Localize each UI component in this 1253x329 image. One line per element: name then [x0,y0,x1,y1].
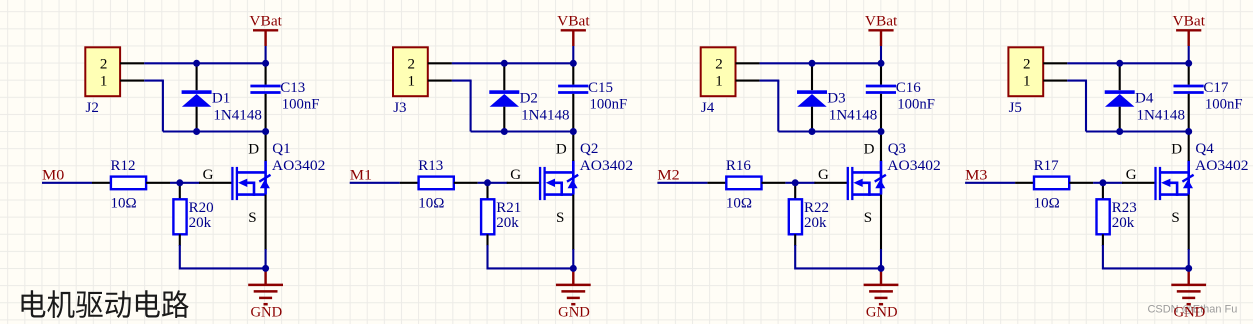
wire top rail (VBat net) [760,62,882,64]
wire from pin 1 down to bottom rail [144,80,164,82]
diode D1 1N4148 [182,63,262,131]
svg-text:D: D [1171,142,1182,158]
diode D2 1N4148 [489,63,569,131]
wire bottom rail (motor net) [1086,130,1190,132]
svg-text:VBat: VBat [249,13,282,29]
junction gate node [792,179,799,186]
transistor Q4 AO3402 N-MOSFET [1122,132,1248,251]
wire from VBat to top rail [265,46,267,63]
wire from VBat to top rail [880,46,882,63]
svg-text:10Ω: 10Ω [111,195,137,211]
svg-text:S: S [864,210,872,226]
svg-text:G: G [818,167,829,183]
svg-text:20k: 20k [189,215,212,231]
wire gate node to gate pin [488,182,508,184]
svg-text:R13: R13 [418,158,443,174]
pin 1 of J5 [1043,80,1067,82]
connector J3 [393,47,428,116]
svg-text:Q4: Q4 [1195,141,1214,157]
resistor R23 20k [1097,183,1137,246]
junction top rail / diode [809,60,816,67]
svg-text:2: 2 [715,56,723,72]
junction top rail / capacitor [878,60,885,67]
resistor R21 20k [481,183,521,246]
svg-text:GND: GND [866,304,898,320]
wire top rail (VBat net) [144,62,266,64]
power port VBat (J2 cell) [249,13,282,46]
power port VBat (J3 cell) [557,13,590,46]
junction bottom rail / drain [262,128,269,135]
junction top rail / capacitor [1185,60,1192,67]
wire bottom rail (motor net) [778,130,882,132]
svg-text:D3: D3 [827,91,845,107]
junction top rail / capacitor [570,60,577,67]
junction ground node [570,265,577,272]
svg-text:1: 1 [100,74,108,90]
capacitor C17 100nF [1174,63,1243,131]
svg-text:J4: J4 [701,100,715,116]
wire net M2 [657,182,707,184]
power port VBat (J4 cell) [865,13,898,46]
ground symbol GND [248,268,283,320]
svg-text:S: S [556,210,564,226]
junction bottom rail / drain [570,128,577,135]
junction ground node [878,265,885,272]
wire bottom rail (motor net) [163,130,267,132]
wire net M1 [350,182,400,184]
svg-text:GND: GND [558,304,590,320]
svg-text:C16: C16 [896,80,922,96]
wire source to ground node [1188,249,1190,268]
svg-text:C13: C13 [280,80,305,96]
junction top rail / diode [1116,60,1123,67]
transistor Q2 AO3402 N-MOSFET [507,132,633,251]
wire pulldown to ground node [179,245,181,270]
wire net M3 [965,182,1015,184]
wire from pin 1 down to bottom rail [1067,80,1087,82]
svg-text:20k: 20k [1112,215,1135,231]
svg-text:GND: GND [250,304,282,320]
wire gate node to gate pin [795,182,815,184]
pin 1 of J2 [120,80,144,82]
junction gate node [176,179,183,186]
svg-text:1N4148: 1N4148 [1137,107,1186,123]
junction ground node [1185,265,1192,272]
svg-text:AO3402: AO3402 [272,158,326,174]
svg-text:G: G [510,167,521,183]
ground symbol GND [864,268,899,320]
resistor R12 10 ohm [92,158,170,212]
junction top rail / diode [501,60,508,67]
svg-text:C17: C17 [1203,80,1229,96]
svg-text:R21: R21 [496,200,521,216]
svg-text:100nF: 100nF [1205,96,1243,112]
junction top rail / diode [193,60,200,67]
svg-text:J2: J2 [86,100,99,116]
svg-text:1: 1 [408,74,416,90]
diode D4 1N4148 [1105,63,1185,131]
svg-text:1N4148: 1N4148 [213,107,262,123]
svg-text:10Ω: 10Ω [1034,195,1060,211]
svg-text:D: D [248,142,259,158]
svg-text:Q2: Q2 [580,141,598,157]
svg-text:D: D [556,142,567,158]
resistor R22 20k [789,183,829,246]
ground symbol GND [556,268,591,320]
transistor Q3 AO3402 N-MOSFET [814,132,940,251]
svg-text:G: G [1126,167,1137,183]
title 电机驱动电路 [22,290,189,318]
svg-text:20k: 20k [496,215,519,231]
junction bottom rail / diode [1116,128,1123,135]
svg-text:C15: C15 [588,80,613,96]
wire pulldown to ground node [486,245,488,270]
svg-text:S: S [1171,210,1179,226]
pin 2 of J4 [736,62,760,64]
pin 1 of J4 [736,80,760,82]
svg-text:D2: D2 [520,91,538,107]
resistor R17 10 ohm [1015,158,1093,212]
svg-text:D1: D1 [212,91,230,107]
svg-text:GND: GND [1174,304,1206,320]
svg-text:Q1: Q1 [272,141,290,157]
svg-text:R22: R22 [804,200,829,216]
wire to gate node [170,182,181,184]
junction gate node [1099,179,1106,186]
wire from pin 1 down to bottom rail [452,80,472,82]
svg-text:G: G [203,167,214,183]
capacitor C13 100nF [250,63,319,131]
svg-text:J5: J5 [1009,100,1022,116]
diode D3 1N4148 [797,63,877,131]
wire pulldown to ground node [794,245,796,270]
wire top rail (VBat net) [452,62,574,64]
svg-text:R20: R20 [189,200,214,216]
svg-text:AO3402: AO3402 [580,158,634,174]
svg-text:Q3: Q3 [888,141,906,157]
svg-text:1: 1 [715,74,723,90]
svg-text:R17: R17 [1034,158,1060,174]
svg-text:R16: R16 [726,158,752,174]
wire to gate node [1093,182,1104,184]
svg-text:VBat: VBat [557,13,590,29]
svg-text:100nF: 100nF [590,96,628,112]
pin 1 of J3 [428,80,452,82]
wire to gate node [478,182,489,184]
junction bottom rail / diode [501,128,508,135]
pin 2 of J2 [120,62,144,64]
resistor R13 10 ohm [400,158,478,212]
svg-text:M0: M0 [42,168,64,184]
capacitor C16 100nF [866,63,935,131]
svg-text:1N4148: 1N4148 [829,107,878,123]
wire to gate node [785,182,796,184]
resistor R16 10 ohm [707,158,785,212]
wire source to ground node [572,249,574,268]
junction bottom rail / drain [878,128,885,135]
junction bottom rail / diode [193,128,200,135]
svg-text:M1: M1 [350,168,372,184]
svg-text:AO3402: AO3402 [1195,158,1249,174]
wire gate node to gate pin [1103,182,1123,184]
resistor R20 20k [173,183,213,246]
wire gate node to gate pin [180,182,200,184]
svg-text:100nF: 100nF [282,96,320,112]
wire from pin 1 down to bottom rail [760,80,780,82]
svg-text:10Ω: 10Ω [726,195,752,211]
svg-text:10Ω: 10Ω [418,195,444,211]
capacitor C15 100nF [558,63,627,131]
svg-text:VBat: VBat [865,13,898,29]
junction bottom rail / diode [809,128,816,135]
svg-text:M3: M3 [965,168,987,184]
svg-text:1N4148: 1N4148 [521,107,570,123]
wire top rail (VBat net) [1067,62,1189,64]
junction top rail / capacitor [262,60,269,67]
junction bottom rail / drain [1185,128,1192,135]
svg-text:100nF: 100nF [897,96,935,112]
svg-text:S: S [248,210,256,226]
junction ground node [262,265,269,272]
connector J5 [1008,47,1043,116]
svg-text:2: 2 [1023,56,1031,72]
svg-text:R23: R23 [1112,200,1137,216]
connector J2 [85,47,120,116]
svg-text:20k: 20k [804,215,827,231]
wire net M0 [42,182,92,184]
transistor Q1 AO3402 N-MOSFET [199,132,325,251]
wire from VBat to top rail [1188,46,1190,63]
svg-text:D: D [864,142,875,158]
wire source to ground node [265,249,267,268]
svg-text:AO3402: AO3402 [887,158,941,174]
pin 2 of J5 [1043,62,1067,64]
wire pulldown to ground node [1102,245,1104,270]
power port VBat (J5 cell) [1173,13,1206,46]
wire bottom rail (motor net) [471,130,575,132]
svg-text:D4: D4 [1135,91,1154,107]
svg-text:J3: J3 [393,100,406,116]
svg-text:1: 1 [1023,74,1031,90]
svg-text:2: 2 [408,56,416,72]
pin 2 of J3 [428,62,452,64]
svg-text:R12: R12 [111,158,136,174]
wire source to ground node [880,249,882,268]
svg-text:VBat: VBat [1173,13,1206,29]
junction gate node [484,179,491,186]
ground symbol GND [1171,268,1206,320]
connector J4 [701,47,736,116]
svg-text:2: 2 [100,56,108,72]
wire from VBat to top rail [572,46,574,63]
svg-text:M2: M2 [657,168,679,184]
